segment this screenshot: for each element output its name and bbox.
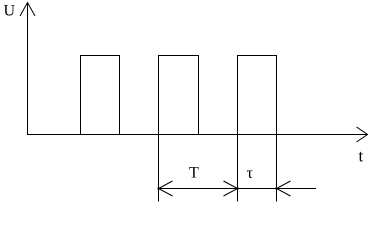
- wire pulse 1: [81, 56, 120, 135]
- wire pulse 3: [238, 56, 277, 135]
- node U-axis arrowhead: [20, 3, 35, 17]
- node t-axis arrowhead: [357, 127, 368, 142]
- wire extension line B: [237, 135, 239, 202]
- wire U-axis vertical line: [27, 3, 29, 136]
- node dimension arrowhead right (T): [224, 181, 239, 196]
- wire t-axis horizontal line: [27, 134, 367, 136]
- node dimension arrowhead (tau): [276, 181, 291, 196]
- svg-text:T: T: [189, 165, 199, 182]
- wire extension line C: [276, 135, 278, 202]
- svg-text:t: t: [359, 147, 364, 166]
- svg-text:τ: τ: [247, 165, 254, 182]
- node dimension arrowhead left (T): [158, 181, 173, 196]
- svg-text:U: U: [4, 3, 16, 20]
- wire extension line A: [158, 135, 160, 202]
- wire dimension line: [159, 188, 317, 190]
- wire pulse 2: [159, 56, 199, 135]
